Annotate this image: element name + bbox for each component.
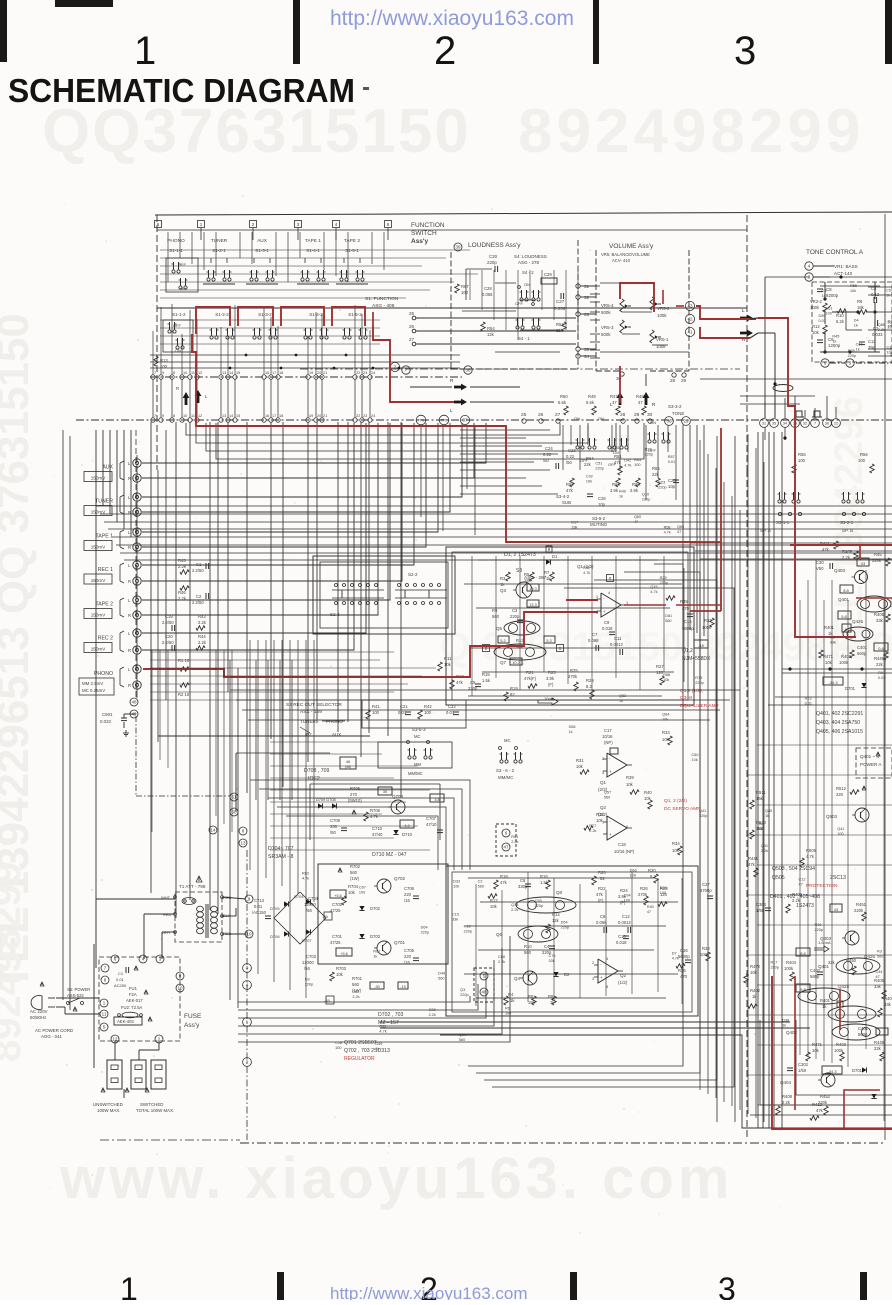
svg-text:82: 82 [510, 692, 515, 697]
svg-text:13.3: 13.3 [529, 587, 536, 591]
svg-text:R472: R472 [750, 964, 761, 969]
svg-text:T1 ATT - 798: T1 ATT - 798 [179, 884, 206, 889]
svg-text:C17: C17 [604, 728, 612, 733]
svg-text:F2A: F2A [129, 992, 137, 997]
svg-text:33k: 33k [452, 917, 458, 921]
svg-text:R11: R11 [444, 656, 452, 661]
svg-text:S2-3: S2-3 [330, 612, 340, 617]
svg-text:DC SERVO AMP: DC SERVO AMP [664, 806, 700, 812]
svg-text:C28: C28 [429, 1008, 436, 1012]
svg-text:C302: C302 [798, 1062, 809, 1067]
svg-text:R5: R5 [524, 572, 530, 577]
svg-text:C92: C92 [586, 475, 593, 479]
svg-text:R34: R34 [672, 841, 680, 846]
svg-text:TONE: TONE [672, 411, 684, 416]
svg-text:SP. B: SP. B [842, 528, 853, 533]
svg-text:4.7k: 4.7k [370, 814, 379, 819]
svg-text:Q6: Q6 [496, 932, 503, 937]
svg-text:R55: R55 [850, 284, 857, 288]
svg-text:R18: R18 [500, 874, 508, 879]
svg-text:R9: R9 [878, 671, 883, 675]
svg-text:100: 100 [634, 463, 640, 467]
svg-text:10k: 10k [663, 678, 669, 682]
svg-text:C709: C709 [330, 818, 341, 823]
svg-text:C16: C16 [680, 948, 688, 953]
svg-text:C67: C67 [856, 343, 863, 347]
svg-text:D701: D701 [845, 686, 856, 691]
svg-text:R22: R22 [598, 886, 606, 891]
svg-text:46: 46 [346, 759, 351, 764]
svg-text:R25: R25 [570, 668, 578, 673]
svg-text:Q86: Q86 [878, 323, 885, 327]
svg-text:SCHEMATIC DIAGRAM: SCHEMATIC DIAGRAM [8, 72, 355, 109]
svg-text:D703: D703 [370, 934, 381, 939]
svg-text:D81: D81 [665, 614, 672, 618]
svg-text:R704: R704 [348, 884, 359, 889]
svg-text:Q702: Q702 [394, 876, 406, 881]
svg-text:18: 18 [279, 414, 283, 418]
svg-text:PROTECTION: PROTECTION [806, 883, 838, 889]
svg-text:D64: D64 [421, 926, 428, 930]
svg-text:R: R [128, 613, 131, 618]
svg-text:VR5-4: VR5-4 [601, 303, 614, 308]
svg-text:R12: R12 [812, 324, 820, 329]
svg-text:R: R [128, 648, 131, 653]
svg-text:C6: C6 [520, 878, 526, 883]
svg-text:R4: R4 [508, 992, 514, 997]
svg-text:47/25: 47/25 [330, 940, 341, 945]
svg-text:220p: 220p [510, 614, 520, 619]
svg-text:R512: R512 [836, 786, 847, 791]
svg-text:R404: R404 [786, 960, 797, 965]
svg-text:2.2k: 2.2k [589, 829, 596, 833]
svg-text:C703: C703 [306, 954, 317, 959]
svg-text:R28: R28 [645, 447, 652, 451]
svg-text:10.2: 10.2 [512, 661, 519, 665]
svg-text:Q5: Q5 [496, 626, 503, 631]
svg-text:C24: C24 [545, 446, 553, 451]
svg-text:48: 48 [131, 700, 137, 705]
svg-text:0.033: 0.033 [872, 332, 883, 337]
svg-text:560: 560 [604, 795, 610, 799]
svg-text:220p: 220p [814, 928, 822, 932]
svg-text:14: 14 [229, 414, 233, 418]
svg-text:R401: R401 [824, 625, 835, 630]
svg-text:15: 15 [236, 414, 240, 418]
svg-text:C51: C51 [595, 462, 602, 466]
svg-text:C12: C12 [798, 877, 805, 881]
svg-text:R23: R23 [805, 696, 812, 700]
svg-text:R408: R408 [782, 1094, 793, 1099]
svg-text:/16: /16 [404, 898, 410, 903]
svg-text:560: 560 [350, 870, 358, 875]
svg-text:R29: R29 [586, 678, 594, 683]
svg-text:C2: C2 [478, 880, 483, 884]
svg-text:2.2k: 2.2k [511, 908, 518, 912]
svg-text:R406: R406 [884, 996, 892, 1001]
svg-text:TAPE 2: TAPE 2 [96, 602, 114, 608]
svg-text:R49: R49 [619, 490, 626, 494]
svg-text:S3 - 6 - 2: S3 - 6 - 2 [496, 768, 515, 773]
svg-text:D24: D24 [660, 886, 667, 890]
svg-text:2: 2 [434, 29, 456, 73]
svg-text:100: 100 [858, 458, 866, 463]
svg-text:C80: C80 [692, 753, 699, 757]
svg-text:49: 49 [131, 712, 137, 717]
svg-text:560p: 560p [857, 651, 867, 656]
svg-text:C26: C26 [598, 496, 606, 501]
svg-text:C57: C57 [886, 288, 892, 292]
svg-text:100: 100 [825, 311, 831, 315]
svg-text:+: + [600, 975, 603, 980]
svg-text:R15: R15 [482, 672, 490, 677]
svg-text:220p: 220p [642, 498, 650, 502]
svg-text:R24: R24 [620, 888, 628, 893]
svg-text:47k: 47k [566, 488, 574, 493]
svg-text:560: 560 [352, 982, 360, 987]
svg-text:(1W): (1W) [350, 876, 360, 881]
svg-text:C20: C20 [165, 634, 173, 639]
svg-text:+: + [609, 769, 612, 774]
svg-text:7: 7 [602, 821, 604, 825]
svg-text:0.01: 0.01 [805, 701, 812, 705]
svg-text:0.022: 0.022 [100, 719, 112, 724]
svg-text:S5: POWER: S5: POWER [67, 987, 90, 992]
svg-text:R64: R64 [586, 456, 594, 461]
svg-text:S2-2: S2-2 [408, 572, 418, 577]
svg-text:C2: C2 [196, 594, 202, 599]
svg-text:C8: C8 [826, 287, 832, 292]
svg-text:35: 35 [772, 422, 776, 426]
svg-text:R58: R58 [664, 525, 671, 529]
svg-text:7: 7 [814, 422, 816, 426]
svg-text:13: 13 [222, 414, 226, 418]
svg-text:(NP): (NP) [604, 740, 613, 745]
svg-text:R: R [128, 579, 131, 584]
svg-text:Q50: Q50 [459, 1033, 466, 1037]
svg-text:R409: R409 [842, 549, 853, 554]
svg-text:1k: 1k [619, 699, 623, 703]
svg-text:10k: 10k [453, 885, 459, 889]
svg-text:+: + [603, 609, 606, 614]
svg-text:100k: 100k [784, 966, 794, 971]
svg-text:L: L [742, 308, 745, 313]
svg-text:47/40: 47/40 [372, 832, 383, 837]
svg-text:47k: 47k [500, 880, 508, 885]
svg-text:C44: C44 [876, 970, 883, 974]
svg-text:R82: R82 [302, 871, 309, 875]
svg-text:AUX: AUX [102, 465, 113, 471]
svg-text:Q10: Q10 [642, 493, 649, 497]
svg-text:Q702 , 703 2SD313: Q702 , 703 2SD313 [344, 1048, 390, 1054]
svg-text:C901: C901 [102, 712, 113, 717]
svg-text:560: 560 [877, 955, 883, 959]
svg-text:12: 12 [198, 371, 202, 375]
svg-text:220p: 220p [595, 467, 603, 471]
svg-text:R1 10: R1 10 [178, 658, 190, 663]
svg-text:R7: R7 [544, 570, 550, 575]
svg-text:3.9k: 3.9k [546, 676, 555, 681]
svg-text:47: 47 [503, 845, 509, 850]
svg-text:0.018: 0.018 [602, 626, 613, 631]
svg-text:S1-1-1: S1-1-1 [169, 248, 183, 253]
svg-text:Q3: Q3 [460, 988, 465, 992]
svg-text:220p: 220p [535, 904, 543, 908]
svg-text:TOTAL 100W MAX.: TOTAL 100W MAX. [136, 1108, 174, 1113]
svg-text:2: 2 [592, 961, 594, 965]
svg-text:RED: RED [163, 912, 172, 917]
svg-text:R9: R9 [492, 608, 498, 613]
svg-text:ACV- 410: ACV- 410 [612, 258, 631, 263]
svg-text:7: 7 [154, 371, 156, 375]
svg-text:PHONO: PHONO [94, 671, 113, 677]
svg-text:R61: R61 [511, 835, 518, 839]
svg-text:0.01: 0.01 [254, 904, 263, 909]
svg-text:13.3: 13.3 [529, 603, 536, 607]
svg-text:S3-1-1: S3-1-1 [776, 520, 790, 525]
svg-text:-30: -30 [374, 985, 380, 989]
svg-text:R403: R403 [836, 1042, 847, 1047]
svg-text:/50: /50 [566, 460, 572, 465]
svg-text:Q1, 2 (2/2): Q1, 2 (2/2) [664, 798, 687, 804]
svg-text:D2: D2 [564, 972, 570, 977]
svg-text:C67: C67 [359, 886, 366, 890]
svg-text:C21: C21 [400, 704, 408, 709]
svg-text:8: 8 [173, 371, 175, 375]
svg-text:2.2k: 2.2k [782, 1100, 791, 1105]
svg-text:D70: D70 [888, 320, 892, 324]
svg-text:R401: R401 [820, 998, 831, 1003]
svg-text:R412: R412 [812, 1102, 823, 1107]
svg-text:5.6k: 5.6k [558, 400, 567, 405]
svg-text:4.7k: 4.7k [806, 854, 815, 859]
svg-text:18: 18 [279, 371, 283, 375]
svg-text:28: 28 [620, 412, 626, 418]
svg-text:R703: R703 [336, 966, 347, 971]
svg-text:892498299: 892498299 [0, 862, 29, 1062]
svg-text:6: 6 [626, 825, 628, 829]
svg-text:/56: /56 [304, 966, 310, 971]
svg-text:36: 36 [666, 419, 672, 424]
svg-text:47k: 47k [816, 1108, 824, 1113]
svg-text:8200p: 8200p [826, 293, 839, 298]
svg-text:2: 2 [596, 595, 598, 599]
svg-text:1k: 1k [569, 730, 573, 734]
svg-text:220: 220 [404, 954, 412, 959]
svg-text:D35: D35 [848, 349, 855, 353]
svg-text:10k: 10k [348, 890, 356, 895]
svg-text:Q2: Q2 [620, 973, 627, 978]
svg-text:0.22: 0.22 [543, 452, 552, 457]
svg-text:D49: D49 [375, 1042, 382, 1046]
svg-text:10k: 10k [336, 972, 344, 977]
svg-text:SP. A: SP. A [760, 528, 772, 533]
svg-text:(F): (F) [598, 898, 604, 903]
svg-text:3.9k: 3.9k [630, 488, 639, 493]
svg-text:R21: R21 [526, 670, 534, 675]
svg-text:R83: R83 [634, 458, 641, 462]
svg-text:21: 21 [323, 371, 327, 375]
svg-text:MC 0.25mV: MC 0.25mV [82, 688, 105, 693]
svg-text:TONE CONTROL A: TONE CONTROL A [806, 249, 864, 256]
svg-text:R44: R44 [198, 634, 206, 639]
svg-text:AC POWER CORD: AC POWER CORD [35, 1028, 73, 1033]
svg-text:R50: R50 [560, 394, 568, 399]
svg-text:VR5-3: VR5-3 [601, 325, 614, 330]
svg-text:Q19: Q19 [650, 585, 657, 589]
svg-text:C82: C82 [352, 990, 359, 994]
svg-text:22k: 22k [876, 662, 884, 667]
svg-text:C701: C701 [332, 934, 343, 939]
svg-text:D701: D701 [852, 1068, 863, 1073]
svg-text:D705: D705 [270, 906, 280, 911]
svg-text:+5.6: +5.6 [340, 952, 348, 956]
svg-text:4.7k: 4.7k [650, 590, 657, 594]
svg-text:16: 16 [265, 414, 269, 418]
svg-text:42: 42 [687, 317, 693, 322]
svg-text:4.7k: 4.7k [379, 1029, 386, 1033]
svg-text:Q53: Q53 [619, 694, 626, 698]
svg-text:R73: R73 [695, 676, 702, 680]
svg-text:100: 100 [505, 1011, 511, 1015]
svg-text:22: 22 [834, 422, 838, 426]
svg-text:ON: ON [598, 416, 604, 421]
svg-text:R77: R77 [589, 824, 596, 828]
svg-text:2.2/50: 2.2/50 [162, 620, 174, 625]
svg-text:VR5: BALANCE/VOLUME: VR5: BALANCE/VOLUME [601, 252, 650, 257]
svg-text:43: 43 [834, 907, 839, 912]
svg-text:S1-5-1: S1-5-1 [345, 248, 359, 253]
svg-text:20: 20 [317, 371, 321, 375]
svg-text:39: 39 [455, 245, 461, 250]
svg-text:C18: C18 [335, 1041, 342, 1045]
svg-text:-15: -15 [400, 985, 406, 989]
svg-text:1: 1 [120, 1271, 138, 1300]
svg-text:1/50: 1/50 [756, 908, 765, 913]
svg-text:C1: C1 [196, 562, 202, 567]
svg-text:Q701 2SB507: Q701 2SB507 [344, 1040, 377, 1046]
svg-text:D4: D4 [854, 319, 859, 323]
svg-text:12000: 12000 [302, 960, 314, 965]
svg-text:R56: R56 [860, 452, 868, 457]
svg-text:560: 560 [492, 614, 500, 619]
svg-text:(F): (F) [548, 682, 554, 687]
svg-text:(38): (38) [345, 765, 351, 769]
svg-text:4.7k: 4.7k [624, 464, 631, 468]
svg-text:R17: R17 [770, 960, 777, 964]
svg-text:1.5k: 1.5k [482, 678, 491, 683]
svg-text:R449: R449 [874, 1040, 885, 1045]
svg-text:/50: /50 [330, 830, 336, 835]
svg-text:-34.3: -34.3 [828, 680, 838, 685]
svg-text:R14: R14 [552, 912, 560, 917]
svg-text:22k: 22k [584, 462, 592, 467]
svg-text:8.2: 8.2 [586, 684, 592, 689]
svg-text:MM/MC: MM/MC [408, 771, 423, 776]
svg-text:FU1: FU1 [129, 986, 138, 991]
svg-text:Q503 , 504 2SC94: Q503 , 504 2SC94 [772, 866, 815, 872]
svg-text:2.2k: 2.2k [429, 1013, 436, 1017]
svg-text:0.018: 0.018 [616, 940, 627, 945]
svg-text:C29: C29 [544, 272, 552, 277]
svg-text:26: 26 [538, 412, 544, 418]
svg-text:38: 38 [465, 368, 471, 373]
svg-text:330: 330 [330, 824, 338, 829]
svg-text:R54: R54 [487, 326, 495, 331]
svg-text:/56: /56 [306, 908, 312, 913]
svg-text:TAPE 2: TAPE 2 [344, 238, 361, 244]
svg-text:10p: 10p [598, 502, 606, 507]
svg-text:TAPE 1: TAPE 1 [305, 238, 322, 244]
svg-text:S4 - 1: S4 - 1 [518, 336, 530, 341]
svg-text:10p: 10p [668, 484, 676, 489]
svg-text:R92: R92 [379, 1024, 386, 1028]
svg-text:FU2: T2.5A: FU2: T2.5A [121, 1005, 143, 1010]
svg-text:MM/MC: MM/MC [498, 775, 513, 780]
svg-text:1k: 1k [856, 348, 860, 352]
svg-text:R36: R36 [678, 968, 686, 973]
svg-text:25: 25 [409, 311, 415, 316]
svg-text:C19: C19 [165, 614, 173, 619]
svg-text:560: 560 [438, 977, 444, 981]
svg-text:32: 32 [803, 422, 807, 426]
svg-text:3: 3 [718, 1271, 736, 1300]
svg-text:21: 21 [323, 414, 327, 418]
svg-text:0.068: 0.068 [588, 638, 599, 643]
svg-text:29: 29 [683, 419, 689, 424]
svg-text:82: 82 [600, 876, 605, 881]
svg-text:R41: R41 [372, 704, 380, 709]
svg-text:MC: MC [414, 734, 421, 739]
svg-text:R30: R30 [648, 868, 656, 873]
svg-text:0.0012: 0.0012 [610, 642, 623, 647]
svg-text:ON: ON [574, 416, 580, 421]
svg-text:4700p: 4700p [700, 888, 712, 893]
svg-text:Q401, 402 2SC2291: Q401, 402 2SC2291 [816, 711, 863, 717]
svg-text:270: 270 [350, 792, 358, 797]
svg-text:15: 15 [236, 371, 240, 375]
svg-text:3: 3 [734, 29, 756, 73]
svg-text:REC 2: REC 2 [98, 636, 113, 642]
svg-text:MUTING: MUTING [590, 522, 608, 527]
svg-text:10k: 10k [757, 827, 763, 831]
svg-text:C710: C710 [372, 826, 383, 831]
svg-text:R65: R65 [652, 466, 660, 471]
svg-text:11: 11 [191, 414, 195, 418]
svg-text:R: R [176, 386, 179, 391]
svg-text:C707: C707 [426, 816, 437, 821]
svg-text:14: 14 [229, 371, 233, 375]
svg-text:33k: 33k [876, 618, 884, 623]
svg-text:10: 10 [183, 414, 187, 418]
svg-text:560: 560 [888, 325, 892, 329]
svg-text:D58: D58 [569, 725, 576, 729]
svg-text:22k: 22k [652, 472, 660, 477]
svg-text:500k: 500k [601, 310, 611, 315]
svg-text:-15: -15 [698, 643, 705, 648]
svg-text:100: 100 [424, 710, 432, 715]
svg-text:GRY: GRY [162, 930, 171, 935]
svg-text:4.7k: 4.7k [664, 530, 671, 534]
svg-text:R3: R3 [500, 576, 506, 581]
svg-text:Q8: Q8 [556, 890, 563, 895]
svg-text:100: 100 [372, 710, 380, 715]
svg-text:TP5: TP5 [441, 419, 447, 423]
svg-text:47: 47 [798, 882, 802, 886]
svg-text:R45: R45 [178, 558, 186, 563]
svg-text:S1: FUNCTION: S1: FUNCTION [365, 296, 399, 302]
svg-text:16: 16 [265, 371, 269, 375]
